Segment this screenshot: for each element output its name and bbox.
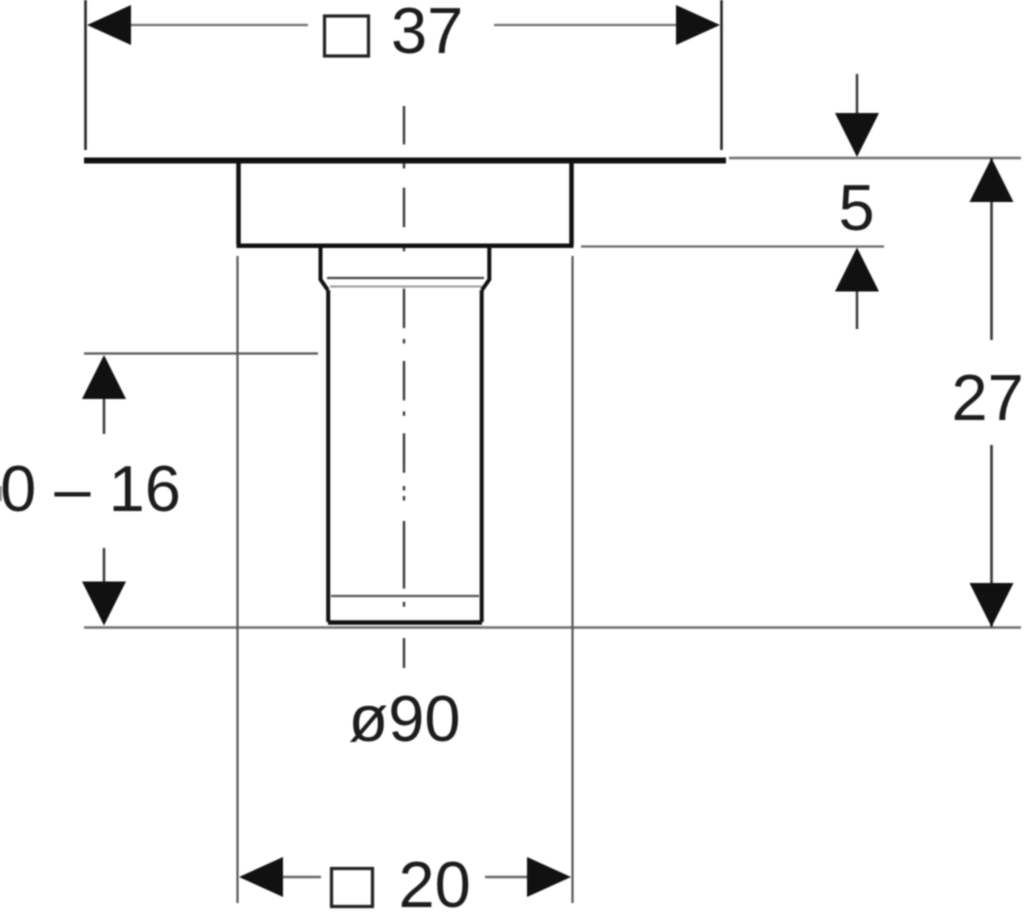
dim-20 dimension line right segment (485, 876, 530, 878)
socket inner edge line (327, 277, 484, 279)
dim-27 line lower segment (990, 445, 993, 627)
dim-37 right extension line (720, 0, 723, 150)
dim-20 left arrowhead (239, 857, 283, 897)
dim-20 square symbol (332, 869, 373, 907)
socket right outer edge (482, 248, 489, 290)
dim-37 left extension line (84, 0, 87, 150)
svg-text:ø90: ø90 (349, 682, 461, 755)
tube right wall (480, 290, 484, 622)
flange bottom edge (237, 244, 574, 249)
dim-20 right extension line (571, 256, 573, 903)
bottom reference line (84, 626, 1021, 628)
svg-text:5: 5 (839, 171, 875, 244)
tube bottom edge (328, 620, 482, 625)
tube end inner edge (331, 595, 479, 597)
dim-016 lower arrow tail (103, 548, 105, 582)
dim-20 left extension line (236, 256, 238, 903)
dim-37 dimension line left segment (128, 24, 308, 26)
dim-20 right arrowhead (527, 857, 571, 897)
dim-016 up arrowhead (82, 355, 126, 399)
dim-37 right arrowhead (676, 5, 720, 45)
socket inner lower edge line (330, 286, 482, 288)
dim-5 top arrow tail (856, 74, 858, 113)
dim-37 square symbol (325, 16, 369, 56)
flange right edge (569, 163, 574, 245)
socket left outer edge (321, 248, 328, 290)
dim-5 up arrowhead (835, 248, 879, 292)
dim-37 dimension line right segment (494, 24, 679, 26)
flange left edge (236, 163, 241, 245)
dim-016 top reference line (84, 352, 318, 354)
plate top edge (84, 158, 726, 164)
dim-5 bottom reference line (581, 245, 884, 247)
tube left wall (326, 290, 330, 622)
dim-016 clipped digit fragment (0, 486, 1, 501)
dim-016 down arrowhead (82, 582, 126, 626)
dim-27 line upper segment (990, 158, 993, 340)
centerline (403, 106, 405, 668)
dim-27 up arrowhead (970, 158, 1014, 202)
dim-20 dimension line left segment (280, 876, 321, 878)
plate top reference line right (729, 157, 1021, 159)
dim-37 left arrowhead (87, 5, 131, 45)
dim-016 upper arrow tail (103, 399, 105, 434)
svg-text:20: 20 (399, 848, 471, 912)
svg-text:37: 37 (391, 0, 463, 67)
svg-text:27: 27 (952, 361, 1024, 434)
dim-5 bottom arrow tail (856, 292, 858, 330)
dim-5 down arrowhead (835, 113, 879, 157)
dim-27 down arrowhead (970, 583, 1014, 627)
svg-text:90 – 16: 90 – 16 (0, 452, 181, 525)
